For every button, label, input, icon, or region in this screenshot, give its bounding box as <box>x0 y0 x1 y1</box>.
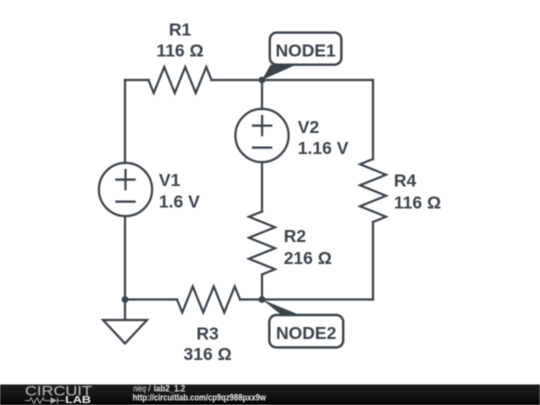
wire V2 to R2 <box>261 162 263 211</box>
wire R1 to NODE1 junction <box>212 79 263 81</box>
wire NODE1 down to V2 <box>261 80 263 109</box>
svg-text:116 Ω: 116 Ω <box>394 193 441 213</box>
svg-text:1.6 V: 1.6 V <box>159 191 200 211</box>
svg-text:216 Ω: 216 Ω <box>284 248 332 268</box>
svg-text:R3: R3 <box>196 324 219 344</box>
svg-text:V1: V1 <box>159 170 181 190</box>
voltage source V1 circle <box>99 163 152 216</box>
NODE2 callout box <box>269 315 343 347</box>
svg-text:NODE1: NODE1 <box>275 40 336 60</box>
wire R4 to bottom-right corner <box>372 222 374 300</box>
junction dot NODE2 <box>259 296 266 303</box>
resistor R2 <box>249 212 275 275</box>
V2 plus sign <box>253 116 271 135</box>
wire bottom-right corner to NODE2 junction <box>262 298 373 300</box>
svg-text:316 Ω: 316 Ω <box>184 344 232 364</box>
wire R3 to NODE2 junction <box>240 298 262 300</box>
V1 plus sign <box>116 170 134 189</box>
resistor R4 <box>360 159 386 222</box>
svg-text:1.16 V: 1.16 V <box>298 138 349 158</box>
svg-text:LAB: LAB <box>65 395 91 405</box>
ground symbol <box>103 300 147 344</box>
svg-text:116 Ω: 116 Ω <box>156 41 203 61</box>
junction dot NODE1 <box>259 77 266 84</box>
resistor R3 <box>177 287 240 313</box>
NODE1 callout box <box>270 33 342 65</box>
wire top-left corner down to V1 <box>124 80 126 163</box>
wire top-left corner to R1 <box>125 79 149 81</box>
junction dot ground node <box>122 296 129 303</box>
wire top-right corner down to R4 <box>372 80 374 159</box>
svg-text:NODE2: NODE2 <box>276 323 337 343</box>
NODE2 callout pointer <box>262 300 300 316</box>
resistor R1 <box>149 67 212 93</box>
svg-text:V2: V2 <box>298 117 320 137</box>
V2 minus sign <box>253 147 271 149</box>
svg-text:R1: R1 <box>169 20 192 40</box>
wire V1 to ground junction <box>124 216 126 299</box>
wire ground junction to R3 <box>125 298 177 300</box>
wire NODE1 to top-right corner <box>262 79 373 81</box>
voltage source V2 circle <box>235 109 288 162</box>
svg-text:R4: R4 <box>394 171 417 191</box>
wire R2 to NODE2 junction <box>261 275 263 300</box>
CircuitLab logo resistor-diode glyph <box>25 397 65 403</box>
svg-text:http://circuitlab.com/cp9qz988: http://circuitlab.com/cp9qz988pxx9w <box>133 393 267 403</box>
V1 minus sign <box>116 201 134 203</box>
NODE1 callout pointer <box>262 65 296 80</box>
svg-text:R2: R2 <box>284 226 307 246</box>
